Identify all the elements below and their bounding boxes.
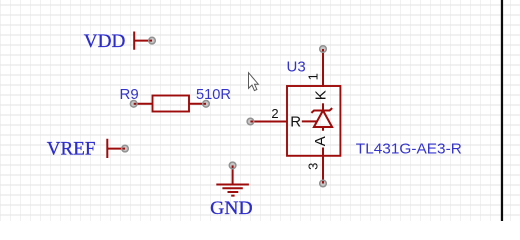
pin dot U3 pin 1 bbox=[319, 45, 327, 53]
svg-text:A: A bbox=[312, 136, 329, 146]
wire resistor right pin bbox=[189, 103, 206, 105]
wire pin 3 (A bottom) bbox=[322, 127, 324, 184]
svg-text:VDD: VDD bbox=[84, 31, 126, 52]
ground GND bbox=[210, 165, 252, 219]
pin dot resistor left bbox=[130, 100, 138, 108]
svg-text:K: K bbox=[312, 90, 329, 100]
pin dot U3 pin 2 bbox=[247, 118, 255, 126]
svg-text:VREF: VREF bbox=[47, 138, 96, 159]
wire resistor left pin bbox=[134, 103, 153, 105]
wire reference R inside body bbox=[302, 120, 317, 122]
pin dot resistor right bbox=[202, 100, 210, 108]
pin dot VDD bbox=[148, 37, 156, 45]
svg-text:GND: GND bbox=[210, 198, 252, 219]
zener diode cathode bar bbox=[311, 108, 332, 113]
svg-text:TL431G-AE3-R: TL431G-AE3-R bbox=[356, 141, 462, 158]
resistor R9 body bbox=[153, 96, 190, 112]
power port VDD bbox=[84, 31, 152, 52]
wire cathode segment inside body bbox=[322, 103, 324, 110]
svg-text:R: R bbox=[290, 114, 301, 131]
component U3 body bbox=[287, 86, 340, 156]
zener diode triangle bbox=[314, 111, 332, 128]
svg-text:U3: U3 bbox=[287, 59, 306, 76]
pin dot GND bbox=[229, 162, 237, 170]
svg-text:2: 2 bbox=[271, 106, 278, 121]
sheet border line bbox=[501, 0, 503, 221]
power port VREF bbox=[47, 138, 125, 159]
svg-text:510R: 510R bbox=[196, 86, 231, 103]
svg-text:1: 1 bbox=[305, 73, 320, 80]
mouse cursor bbox=[249, 73, 259, 91]
wire pin 2 (R left) bbox=[250, 121, 287, 123]
pin dot U3 pin 3 bbox=[319, 180, 327, 188]
svg-text:3: 3 bbox=[305, 163, 320, 170]
wire pin 1 (K top) bbox=[322, 49, 324, 87]
pin dot VREF bbox=[121, 145, 129, 153]
